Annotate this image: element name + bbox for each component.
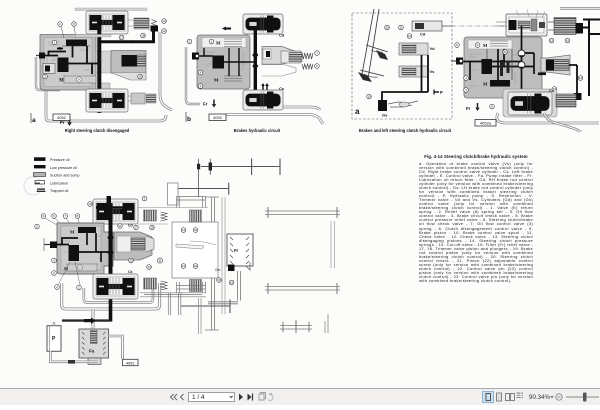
svg-text:Lubrication: Lubrication (50, 181, 68, 185)
svg-text:M: M (59, 79, 64, 84)
next view button (269, 394, 274, 401)
callout 11 (181, 228, 186, 233)
clutch pack top (RH clutch) (86, 11, 128, 34)
center control valve (111, 51, 146, 74)
svg-text:19: 19 (367, 95, 371, 99)
callout 11 (118, 224, 123, 229)
callout 4 (464, 76, 469, 81)
callout 11 (407, 34, 412, 39)
hydraulic pump P (47, 326, 61, 352)
callout 11 (181, 264, 186, 269)
svg-text:a: a (355, 107, 360, 116)
callout 5 (455, 43, 460, 48)
heavy net main (57, 233, 110, 262)
svg-text:a: a (32, 117, 36, 124)
callout 18 (141, 33, 146, 38)
ref box 4052 b (209, 114, 226, 121)
callout 4 (198, 70, 203, 75)
svg-text:16: 16 (230, 281, 234, 285)
clutch pack bottom (86, 89, 128, 112)
svg-text:Cd: Cd (128, 224, 133, 228)
svg-text:18: 18 (217, 278, 221, 282)
callout 7 (63, 214, 68, 219)
upper gear train shafts (201, 166, 281, 168)
svg-text:13: 13 (147, 265, 151, 269)
leader lines (45, 218, 80, 230)
callout 17 (134, 225, 139, 230)
disc row top spring (161, 212, 168, 221)
main spool black rect (58, 58, 69, 73)
callout 16 (193, 264, 198, 269)
svg-text:Fr: Fr (234, 248, 239, 253)
link lines pack to valve (128, 18, 150, 30)
legend lubrication (35, 181, 45, 184)
svg-text:14: 14 (162, 19, 166, 23)
facing mode (506, 394, 510, 401)
lower axle segment (181, 305, 230, 307)
check valve circles (518, 50, 525, 57)
valve Vd (399, 43, 428, 55)
callout 16 (193, 228, 198, 233)
callout 9 (490, 104, 495, 109)
svg-text:Cd: Cd (420, 32, 426, 37)
callout 13 (578, 76, 583, 81)
relief bar main (78, 227, 96, 233)
suction filter Fa (79, 329, 109, 358)
return pipe filter to pump (109, 336, 123, 359)
pipes bottom c (497, 113, 599, 123)
svg-text:4052: 4052 (57, 115, 67, 120)
disc row top left group (144, 210, 157, 221)
first page button (171, 394, 178, 400)
prev view button (259, 393, 266, 401)
svg-text:M: M (70, 230, 75, 235)
svg-text:Cs: Cs (549, 88, 555, 93)
svg-text:15: 15 (550, 39, 554, 43)
gray cluster right of bottom pack (131, 93, 145, 104)
callout 5 (52, 214, 57, 219)
housing box (172, 222, 218, 278)
svg-text:M: M (216, 41, 221, 46)
main valve body (57, 223, 113, 274)
last page button (248, 394, 252, 401)
heavy line relief to Cs (569, 65, 577, 95)
valve body main (40, 35, 96, 91)
svg-text:10: 10 (88, 202, 92, 206)
svg-text:17: 17 (120, 36, 124, 40)
disc row top right group (190, 210, 202, 222)
return pipes bottom right of b (252, 107, 320, 110)
svg-text:11: 11 (118, 224, 121, 228)
check valve block 15 top (134, 18, 149, 29)
svg-text:Trapped oil: Trapped oil (50, 189, 68, 193)
arrow right (127, 41, 132, 43)
continuous mode (497, 393, 502, 401)
callout 19 (367, 94, 372, 99)
svg-text:4052: 4052 (213, 115, 223, 120)
valve body b (197, 35, 250, 89)
legend trapped oil (38, 188, 45, 191)
pipe left frame (186, 47, 200, 104)
callout 2 (55, 285, 60, 290)
main pressure line vertical center (109, 203, 113, 295)
spool main (69, 245, 80, 261)
brake base plates (140, 293, 206, 297)
lube row bottom of body (67, 264, 97, 271)
legend suction and sump (34, 173, 46, 177)
middle control valve (114, 232, 152, 260)
callout 7 (315, 51, 320, 56)
heavy line left to spool (45, 52, 66, 56)
svg-text:Pressure oil: Pressure oil (50, 158, 70, 162)
cut-off valve lower-left (43, 64, 55, 74)
control valve E cones right (262, 47, 296, 65)
page number box (189, 393, 235, 402)
callout 1 (209, 39, 214, 44)
relief cone right (541, 55, 570, 75)
callout 6 (41, 214, 46, 219)
svg-text:Vs: Vs (430, 69, 436, 74)
svg-text:11: 11 (399, 26, 402, 30)
Gs cylinder black (378, 100, 387, 111)
callout 16 (565, 38, 570, 43)
svg-text:15: 15 (138, 75, 142, 79)
callout 14 (162, 19, 167, 24)
svg-text:20: 20 (385, 26, 389, 30)
ref box 4052 (53, 114, 70, 121)
svg-text:Brakes and left steering clutc: Brakes and left steering clutch hydrauli… (359, 128, 452, 133)
brake cylinder Cd (top pack) (243, 14, 283, 34)
svg-text:16: 16 (194, 228, 198, 232)
left fitting b (192, 53, 199, 60)
next page button (239, 394, 243, 401)
callout 18 (150, 225, 155, 230)
heavy line spool to center (68, 46, 100, 74)
svg-text:13: 13 (579, 76, 583, 80)
svg-text:18: 18 (141, 34, 145, 38)
suction pipe loop inner (84, 288, 153, 303)
heavy net b (199, 48, 255, 76)
svg-text:17: 17 (134, 226, 138, 230)
callout 6 (315, 64, 320, 69)
axle lines right (265, 211, 340, 215)
svg-text:Cd: Cd (279, 33, 285, 38)
gray plates around top pack (75, 8, 147, 11)
steering levers (360, 9, 388, 79)
callout 2 (58, 22, 63, 27)
pressure line top branch to check valve (99, 31, 153, 42)
dash-dot rod line (452, 25, 505, 27)
legend low pressure oil (34, 165, 46, 168)
svg-text:15: 15 (129, 259, 133, 263)
callout 18 (217, 278, 222, 283)
arrow left top (224, 28, 231, 30)
callout 17 (119, 35, 124, 40)
svg-text:21: 21 (503, 50, 507, 54)
dashed linkage box (352, 13, 452, 119)
disc row bottom left group (144, 278, 157, 289)
pipe pump to line (53, 322, 55, 326)
svg-text:12: 12 (162, 29, 166, 33)
callout 13 (147, 265, 152, 270)
legend pressure oil (34, 157, 46, 161)
P port (434, 91, 439, 93)
svg-text:16: 16 (194, 264, 198, 268)
V callout (157, 258, 162, 263)
left fitting main (50, 242, 57, 249)
svg-text:Low pressure oil: Low pressure oil (50, 166, 77, 170)
zoom out button (556, 394, 562, 400)
continuous facing mode (517, 393, 524, 397)
viewer status toolbar (0, 388, 600, 405)
callout 10 (88, 202, 93, 207)
brake cylinder Cs (bottom pack) (243, 90, 283, 110)
riser to filter Fa (92, 309, 95, 329)
up arrows (263, 85, 267, 92)
svg-text:Fr: Fr (203, 102, 208, 107)
prev page button (181, 394, 184, 400)
svg-text:18: 18 (150, 226, 154, 230)
brake drum frame bottom (177, 282, 206, 293)
zoom slider (566, 396, 599, 398)
svg-text:4052: 4052 (126, 360, 135, 365)
callout 1 (77, 285, 82, 290)
callout 5 (35, 224, 40, 229)
callout 21 (503, 50, 508, 55)
callout 8 (72, 22, 77, 27)
svg-text:Gs: Gs (382, 113, 388, 118)
suction pipe loop outer (62, 283, 160, 309)
callout 16 (229, 280, 234, 285)
diagram c: brakes and left steering clutch hydraulic circuit (352, 9, 600, 134)
lube filter Fr (227, 234, 253, 266)
svg-text:Vd: Vd (430, 46, 436, 51)
svg-text:16: 16 (566, 39, 570, 43)
faint stamp circle (24, 177, 42, 195)
legend (24, 157, 80, 195)
svg-text:M: M (214, 78, 219, 83)
svg-text:Fa: Fa (89, 349, 95, 354)
diagram b: brakes hydraulic circuit (186, 14, 323, 133)
callout 6 (475, 43, 480, 48)
callout 15 (549, 38, 554, 43)
callout 8 (75, 214, 80, 219)
lower pipe pair (199, 298, 202, 334)
callout 3 (464, 88, 469, 93)
bottom clutch pack main (93, 274, 138, 299)
flow arrow (84, 319, 91, 322)
bottom right shaft segments (280, 326, 312, 330)
callout 12 (162, 29, 167, 34)
main diagram: steering clutch/brake hydraulic system (35, 159, 340, 366)
callout 17 (552, 87, 557, 92)
ref box 4052a (475, 120, 496, 127)
valve body c (464, 37, 542, 98)
svg-text:Brakes hydraulic circuit: Brakes hydraulic circuit (234, 128, 281, 133)
single page mode (active) (483, 392, 494, 403)
svg-text:Cs: Cs (279, 86, 285, 91)
svg-text:P: P (440, 90, 443, 95)
spool rect b (213, 56, 225, 69)
brake cylinder Cd right (554, 18, 576, 35)
ref box 4052 main (123, 359, 139, 365)
bottom clutch pack c (503, 89, 557, 117)
cylinder Gd top (412, 21, 442, 31)
svg-text:b: b (187, 116, 191, 123)
svg-text:4052a: 4052a (480, 121, 492, 126)
valve Vs (399, 66, 428, 77)
callout 3 (198, 84, 203, 89)
svg-text:11: 11 (408, 34, 411, 38)
pipe from Fr down (208, 271, 241, 304)
heavy lines linkage (382, 55, 428, 101)
svg-text:90.34%: 90.34% (529, 394, 550, 401)
svg-text:Suction and sump: Suction and sump (50, 174, 80, 178)
gearbox shafts verticals (212, 197, 215, 330)
lube pipe left (36, 57, 60, 90)
upper gear train second axle (178, 188, 229, 190)
arrow left low pressure (57, 48, 63, 50)
trimmer valve top (506, 14, 547, 36)
main heavy vertical b (254, 30, 257, 94)
axle vertical connector right (331, 221, 335, 268)
diagram a: right steering clutch disengaged (31, 8, 172, 133)
callout 15 (129, 258, 134, 263)
left fitting c (456, 58, 463, 65)
brake drum frame top (177, 197, 206, 208)
right vertical pipe (160, 32, 172, 110)
lower drum shafts (168, 293, 181, 315)
callout 4 (52, 258, 57, 263)
callout 3 (52, 271, 57, 276)
callout 15 (138, 74, 143, 79)
svg-text:Fr: Fr (466, 106, 471, 111)
svg-text:Gm: Gm (215, 268, 221, 272)
svg-text:11: 11 (182, 228, 185, 232)
svg-text:Cs: Cs (128, 270, 133, 274)
heavy net c (463, 26, 534, 94)
spool rect c (482, 59, 493, 74)
top clutch pack main (93, 199, 138, 224)
left fitting (39, 53, 45, 59)
svg-text:Right steering clutch disengag: Right steering clutch disengaged (65, 128, 130, 133)
return pipe under diagram a (46, 90, 166, 121)
svg-text:1 / 4: 1 / 4 (192, 394, 205, 401)
callout 5 (187, 39, 192, 44)
callout 11 (399, 25, 404, 30)
callout 3 (43, 74, 48, 79)
relief valve bar 8 (66, 40, 87, 47)
brake cylinder Cs right (556, 94, 576, 107)
figure caption text block (419, 154, 533, 283)
svg-text:M: M (483, 82, 488, 87)
callout 1 (52, 40, 57, 45)
lever pivots (376, 50, 388, 60)
linkage right of Gs (388, 101, 418, 107)
heavy lines to right edge (583, 20, 600, 97)
pressure line down to pump (109, 295, 113, 322)
callout 20 (385, 25, 390, 30)
main pressure line vertical (97, 17, 101, 113)
callout 9 (142, 196, 147, 201)
check valve square (151, 26, 159, 32)
svg-text:11: 11 (182, 264, 185, 268)
lube channel (64, 76, 96, 83)
